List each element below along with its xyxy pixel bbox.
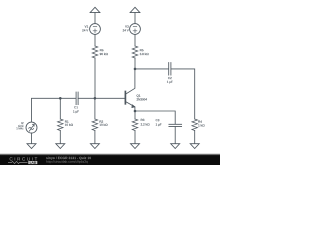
node: base rail junction at R1 [59,97,62,100]
resistor R6 [92,46,98,58]
wire [134,34,136,46]
label R4 1k [198,121,204,127]
transistor Q1 [124,92,126,104]
wire [134,13,136,24]
resistor R2 [94,98,96,119]
label C1 1uF [73,106,79,113]
label C2 1uF [167,77,173,84]
resistor R1 [59,98,61,119]
label V1 24V [82,25,88,31]
label R3 2.2k [141,119,150,126]
label R1 10k [65,121,73,126]
wire [94,131,96,144]
resistor R5 [132,46,138,58]
label V3 24V [123,25,129,31]
label R2 10k [100,120,108,125]
ground [190,144,199,149]
wire [59,131,61,144]
node: collector junction [134,68,137,71]
wire [194,131,196,144]
wire: input rail [32,98,76,122]
wire [78,97,125,99]
wire: emitter rail [135,111,175,124]
logo CIRCUIT [10,157,38,160]
wire [134,131,136,144]
ground [131,144,140,149]
ground [56,144,65,149]
wire [94,13,96,24]
logo LAB box [28,161,37,164]
ground [171,144,180,149]
wire [135,68,168,70]
node: emitter junction [134,110,137,113]
label I2 sine 1kHz [16,122,23,129]
wire [31,133,33,144]
label C3 1uF [156,119,162,126]
capacitor C3 [169,124,182,126]
footer text line 1 [46,157,91,160]
capacitor C2 [169,63,171,76]
node: base rail junction at R2 [94,97,97,100]
ground [27,144,36,149]
resistor R3 [134,111,136,119]
wire [94,34,96,46]
resistor R4 [192,119,198,131]
label Q1 2N3904 [137,94,148,100]
logo squiggle [8,161,28,163]
power flag V3 [130,7,140,12]
source I2 [26,122,37,133]
voltage source V1 [90,24,101,35]
wire [94,58,96,98]
power flag V1 [90,7,100,12]
wire [174,127,176,144]
ground [90,144,99,149]
voltage source V3 [130,24,141,35]
label R5 3.8k [140,49,149,55]
wire [134,58,136,69]
label R6 90k [100,49,108,55]
wire [171,69,195,119]
footer text line 2 [46,160,87,163]
capacitor C1 [76,92,78,105]
